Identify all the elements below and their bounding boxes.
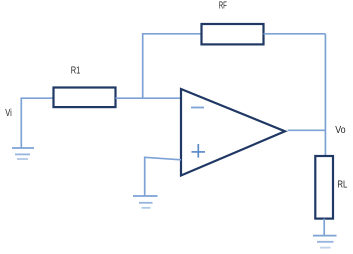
ground (output load) bbox=[313, 236, 337, 248]
wire right vertical bbox=[324, 34, 326, 156]
wire R1 to op-amp inverting input bbox=[116, 97, 181, 99]
svg-text:R1: R1 bbox=[71, 66, 81, 77]
op-amp U1 bbox=[181, 89, 285, 176]
resistor RL bbox=[315, 156, 333, 219]
ground (non-inverting input) bbox=[133, 196, 158, 208]
wire RF to right vertical bbox=[264, 33, 326, 35]
svg-text:RF: RF bbox=[219, 1, 227, 12]
op-amp plus sign bbox=[192, 144, 206, 158]
wire top left to RF bbox=[142, 33, 202, 35]
wire output bbox=[288, 129, 326, 131]
resistor R1 bbox=[54, 88, 116, 108]
wire feedback vertical bbox=[142, 34, 144, 98]
svg-text:Vi: Vi bbox=[5, 108, 12, 119]
ground (input) bbox=[12, 148, 34, 159]
op-amp minus sign bbox=[191, 107, 204, 109]
svg-text:Vo: Vo bbox=[335, 125, 346, 136]
resistor RF bbox=[202, 24, 264, 44]
svg-text:RL: RL bbox=[337, 180, 347, 191]
wire non-inverting input bbox=[145, 157, 181, 160]
wire Vi horizontal input bbox=[21, 97, 54, 99]
wire Vi vertical to ground bbox=[20, 97, 22, 147]
wire vertical to mid ground bbox=[144, 157, 146, 196]
wire RL to ground bbox=[323, 219, 325, 235]
